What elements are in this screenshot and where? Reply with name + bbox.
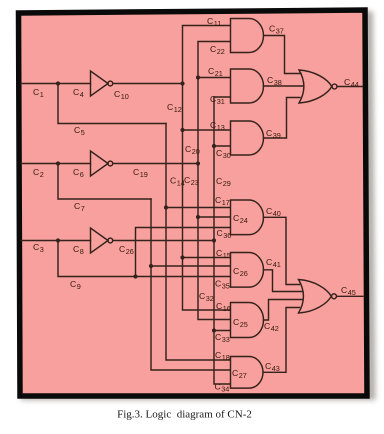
junction node C26-mid	[149, 264, 153, 268]
junction node on C2	[56, 161, 60, 165]
wire C37	[264, 36, 302, 74]
wire C10	[113, 83, 183, 85]
wire C19	[113, 163, 198, 165]
and-gate C27 (C43)	[231, 357, 264, 389]
wire C43	[264, 308, 300, 373]
riser C9 to C36	[136, 228, 231, 277]
wire C13	[183, 129, 231, 131]
wire C45	[337, 295, 363, 297]
wire C2	[21, 163, 91, 165]
wire C30	[214, 145, 230, 147]
junction node C13	[180, 128, 184, 132]
wire C1	[21, 83, 91, 85]
riser C29/C32 (inverter3 net) with C31 corner and C34 corner	[214, 97, 230, 384]
wire C33	[214, 330, 230, 332]
inverter U3 (C8 -> C26)	[91, 228, 109, 253]
wire C38	[264, 85, 304, 87]
wire C3	[21, 240, 91, 242]
junction node C17	[164, 205, 168, 209]
wire C26 out	[113, 240, 214, 242]
and-gate G2 (C38)	[231, 69, 264, 103]
nor-gate N1 (C44)	[299, 70, 332, 103]
wire C26 mid input	[151, 265, 230, 267]
wire C9 (continues as C35 into gate C26)	[58, 241, 230, 277]
and-gate C24 (C40)	[231, 200, 264, 235]
riser C12/C14 (inverter1 net) with C11 and C16 corners	[183, 26, 231, 311]
junction node C24-mid	[196, 215, 200, 219]
inverter U2 (C6 -> C19)	[91, 151, 109, 176]
riser C5 down with C17 branch and C18 corner	[166, 124, 230, 361]
inverter U1 (C4 -> C10)	[91, 71, 109, 96]
junction node C10/C12	[180, 81, 184, 85]
junction node C19/C20	[196, 161, 200, 165]
wire C17	[166, 207, 230, 209]
riser C7 down with C26-mid branch and C27-mid corner	[151, 199, 230, 370]
junction node C15	[180, 255, 184, 259]
and-gate C25 (C42)	[231, 303, 264, 338]
svg-text:Fig.3. Logic diagram of CN-2: Fig.3. Logic diagram of CN-2	[117, 409, 252, 421]
and-gate G3 (C39)	[231, 121, 264, 155]
wire C44	[337, 86, 362, 88]
wire C24 mid input	[198, 216, 230, 218]
wire C15	[183, 257, 231, 259]
wire C21	[198, 77, 230, 79]
junction node C26/C32	[212, 238, 216, 242]
junction node on C1	[56, 81, 60, 85]
and-gate G1 (C37)	[231, 19, 264, 53]
junction node C21	[196, 75, 200, 79]
junction node on C3	[56, 238, 60, 242]
wire C7	[58, 164, 151, 200]
wire C5	[58, 84, 166, 124]
and-gate C26 (C41)	[231, 253, 264, 288]
wire C39	[264, 98, 301, 139]
wire C42	[264, 300, 303, 321]
nor-gate N2 (C45)	[299, 280, 332, 314]
wire C41	[264, 270, 303, 292]
junction node C9/C36	[133, 274, 137, 278]
riser C20/C23 (inverter2 net) with C22 corner and C25-mid corner	[198, 42, 230, 320]
junction node C30	[212, 144, 216, 148]
wire C40	[264, 217, 300, 284]
junction node C33	[212, 328, 216, 332]
